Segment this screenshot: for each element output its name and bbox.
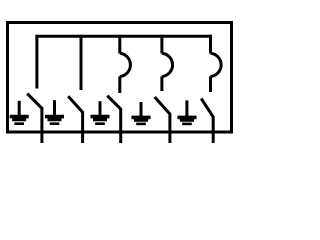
contact arc A4 (unit 4) [162, 53, 173, 76]
wire W3 lower stub (unit 3) [118, 76, 121, 93]
ground G1 [10, 101, 29, 125]
package outline [8, 23, 232, 133]
wire W3 upper stub (unit 3) [118, 35, 121, 54]
wire W1 (bus drop, unit 1) [35, 35, 38, 89]
switch lever S2 and pivot pin wire P2 [68, 96, 82, 143]
wire W5 lower stub (unit 5) [209, 76, 212, 92]
ground G3 [91, 101, 110, 125]
wire W5 upper stub (unit 5, bus right end) [209, 35, 212, 54]
switch lever S4 and pivot pin wire P4 [155, 97, 170, 143]
ground G5 [178, 100, 197, 125]
wire W2 (bus drop, unit 2) [80, 35, 83, 90]
wire W4 lower stub (unit 4) [160, 76, 163, 91]
ground G4 [132, 102, 151, 125]
switch lever S1 and pivot pin wire P1 [27, 94, 42, 143]
contact arc A3 (unit 3) [120, 53, 131, 76]
switch lever S3 and pivot pin wire P3 [107, 96, 120, 143]
bus wire (common top net) [35, 35, 212, 38]
switch lever S5 and pivot pin wire P5 [201, 98, 213, 143]
contact arc A5 (unit 5) [211, 53, 222, 76]
ground G2 [45, 100, 64, 125]
wire W4 upper stub (unit 4) [160, 35, 163, 54]
